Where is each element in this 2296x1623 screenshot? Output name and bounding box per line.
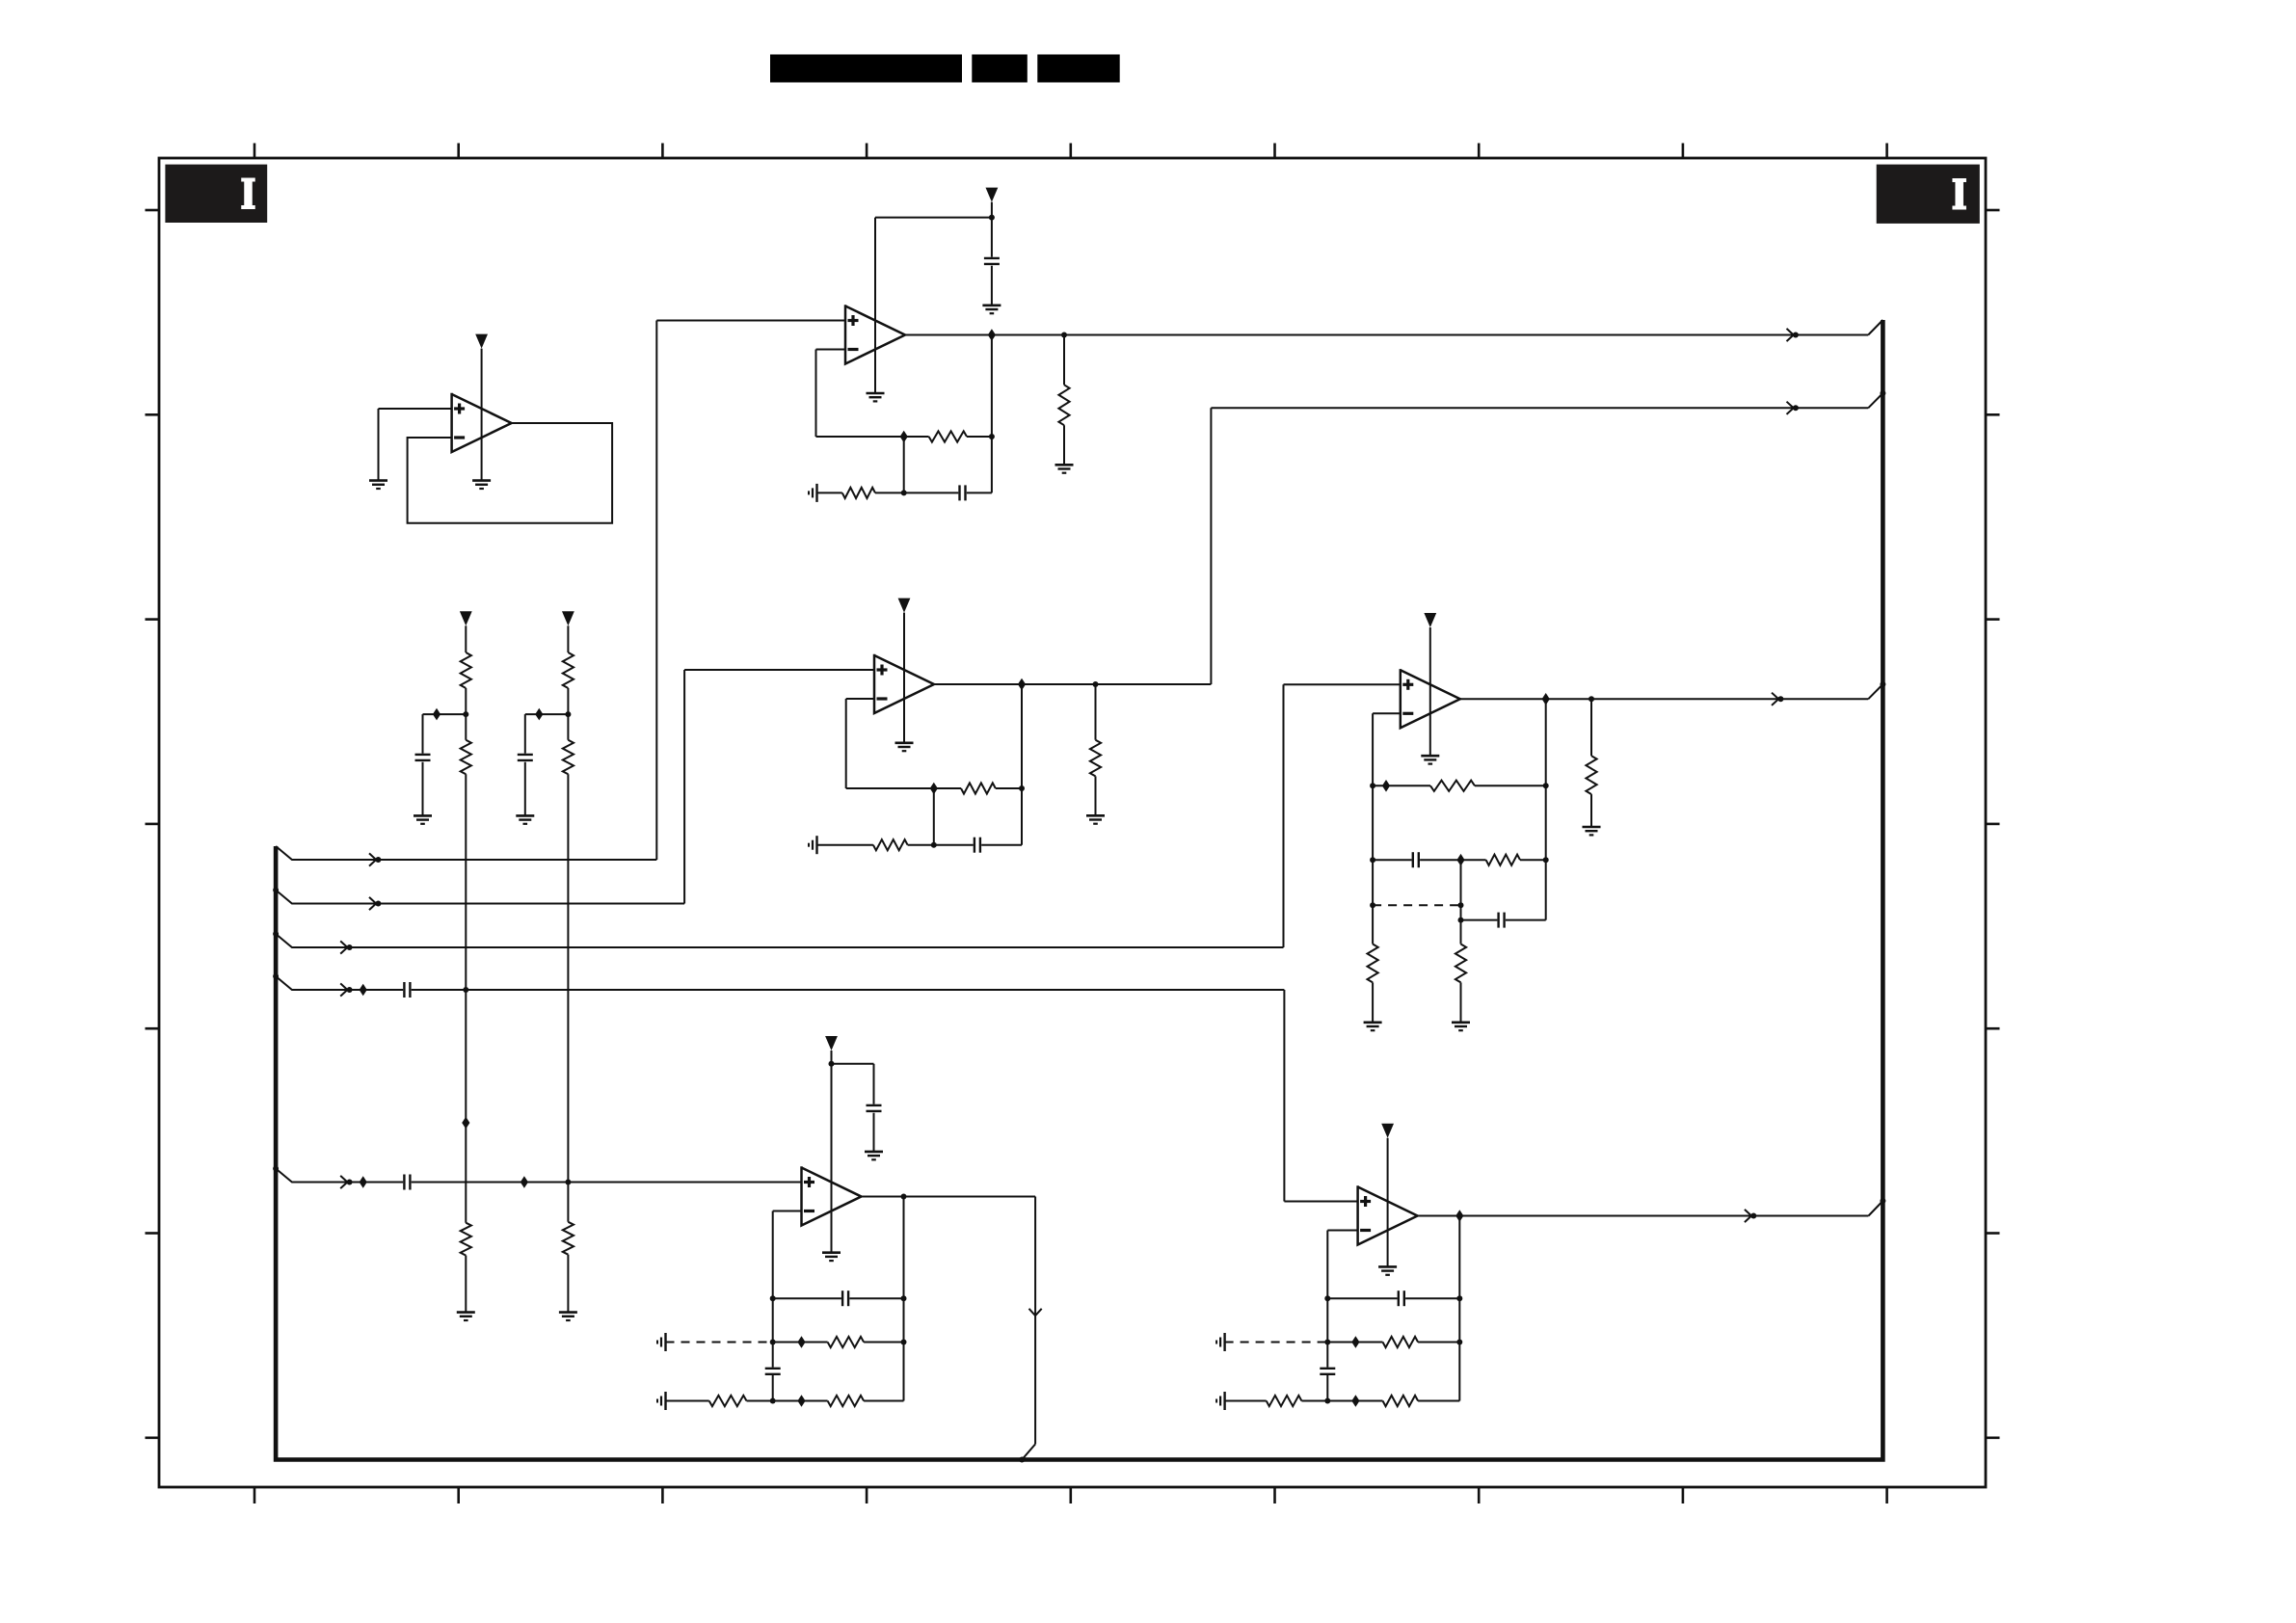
U2 output diamond junction [988,329,996,341]
op-amp U2 [845,305,905,363]
U6 - input wire and left column [1327,1230,1357,1232]
U2 lower node column [903,437,905,492]
U3 feedback column wire [1021,684,1023,845]
arrow on U6 output wire [1745,1210,1751,1222]
grid-reference letter I (right) [1952,178,1966,210]
divider 1 column diamond [462,1117,469,1130]
ground under U2 decoupling cap [982,304,1001,306]
wire branch 5 (bus via coupling cap to U5 + input) [276,1169,403,1183]
ground under U3 [895,741,914,744]
U5 power stem [831,1051,833,1064]
junction on right bus from U3 output [1880,390,1885,396]
ground under U6 [1378,1265,1397,1268]
divider 1 bottom resistor [461,1223,471,1256]
ground under U5 [822,1251,841,1254]
divider 1 mid node junction [463,711,468,717]
U3 output diamond junction [1018,678,1026,691]
U2 output load resistor [1063,335,1065,386]
grid-reference box top-left [165,165,267,223]
junction branch 5 / divider 2 column [565,1180,571,1185]
ground under U4 [1421,755,1439,758]
wire branch 3 (bus to U4 + input) [276,934,1283,947]
node dot branch 2 [375,901,381,907]
U2 power wire to op-amp [875,217,992,219]
ground under U1 [472,479,491,482]
node dot branch 3 [347,945,353,950]
arrow on U5 output drop wire [1029,1309,1042,1316]
node dot branch 1 [375,857,381,863]
ground at U1 + input [369,479,387,482]
junction on right bus from U4 output [1880,681,1885,687]
U6 output diamond junction [1455,1210,1463,1222]
ground under divider 2 [559,1311,577,1314]
wire branch 4 continued [412,989,1285,991]
U3 series capacitor [934,844,974,846]
U2 feedback column junction [989,434,995,439]
U5 row C resistor [773,1400,828,1402]
divider 2 cap branch wire [525,713,569,715]
power symbol for U5 [825,1036,838,1051]
ground under U4 mid column [1452,1022,1470,1024]
ground under divider 1 capacitor [414,814,432,817]
U5 row A capacitor [773,1297,841,1299]
divider 2 column wire [567,714,569,740]
U2 lower node junction [901,490,907,495]
arrow on U2 output wire [1787,329,1794,341]
U6 row C resistor [1327,1400,1382,1402]
U5 left column junction row B [770,1340,776,1345]
U5 supply decoupling branch [832,1063,874,1065]
U4 feedback column junction row B [1543,857,1549,863]
arrow on branch 4 [340,983,347,996]
U5 left column capacitor [765,1368,781,1370]
divider 2 upper resistor [567,625,569,652]
junction on bus for branch 4 [273,973,279,979]
U6 right column junction row B [1456,1340,1462,1345]
U5 output node dot [901,1194,907,1200]
U4 supply/ground pin wire [1429,627,1431,756]
U5 left column junction row A [770,1295,776,1301]
U3 series resistor to ground [817,844,873,846]
U4 row B resistor [1461,859,1486,861]
U2 output node dot [1061,333,1067,338]
U3 output wire [934,683,1211,685]
U4 row D capacitor [1461,919,1498,921]
U3 feedback resistor [934,787,961,789]
sideways ground at U5 row B [664,1333,666,1351]
U2 series capacitor [904,492,959,493]
U5 row C diamond junction [797,1395,805,1407]
arrow on U4 output wire [1772,693,1778,705]
sideways ground at U6 row B [1223,1333,1225,1351]
ground under divider 1 [457,1311,475,1314]
U5 supply/ground pin wire [831,1064,833,1253]
U5 output wire down to bottom bus [862,1196,1036,1198]
ground under U2 load resistor [1055,464,1074,466]
U4 output load resistor [1590,699,1592,756]
diamond on branch 5 [521,1176,528,1188]
U6 left column junction row B [1324,1340,1330,1345]
U4 mid column resistor to ground [1455,945,1466,983]
junction on bus for branch 2 [273,888,279,893]
U4 mid column wire [1460,860,1462,944]
node dot branch 4 [347,987,353,993]
U5 row B dashed wire [666,1342,773,1344]
ground under divider 2 capacitor [516,814,534,817]
junction on bus for branch 5 [273,1166,279,1172]
sideways ground at U6 row C [1223,1392,1225,1410]
U5 row B resistor [773,1342,828,1344]
U2 output wire to right bus [905,334,1868,336]
title bar (redacted) segment 1 [770,55,962,83]
thick bus (left vertical, bottom, right vertical) [276,320,1882,1460]
U4 output diamond junction [1542,693,1550,705]
U4 left column resistor to ground [1372,905,1374,944]
border frame [159,158,1986,1487]
dot on U6 output wire [1750,1213,1756,1219]
ground under U4 load resistor [1583,826,1601,829]
arrow on branch 2 [369,897,376,910]
U2 power stem [991,202,993,218]
U5 - input wire and left column [773,1211,802,1212]
power symbol for U6 [1381,1124,1394,1138]
U4 output wire to right bus [1460,698,1868,700]
divider 1 lower resistor [461,740,471,775]
arrow on U3 output wire [1787,402,1794,414]
dot on U3 output wire [1793,405,1799,411]
U3 supply/ground pin wire [903,613,905,743]
U3 feedback column junction [1019,785,1025,791]
op-amp U3 [874,654,934,713]
divider 2 diamond junction [535,708,543,721]
ground under U5 decoupling cap [865,1151,883,1154]
U6 supply/ground pin wire [1387,1138,1389,1267]
U4 left column junction row C [1370,902,1375,908]
U2 feedback resistor [904,436,929,438]
U4 feedback column wire [1545,699,1547,919]
U6 right column wire [1458,1216,1460,1401]
dot on U4 output wire [1777,696,1783,702]
U3 lower node junction [931,842,937,848]
diamond junction branch 5 [360,1176,367,1188]
divider 1 cap branch wire [423,713,467,715]
U5 power node junction [829,1061,835,1067]
U3 output load resistor [1095,684,1097,740]
U4 left column junction row A [1370,783,1375,788]
U4 feedback column junction row A [1543,783,1549,788]
power symbol for U1 [475,334,488,349]
U6 row B resistor [1327,1342,1382,1344]
U6 row A capacitor [1327,1297,1397,1299]
divider 2 mid node junction [565,711,571,717]
U2 feedback column wire [991,335,993,493]
arrow on branch 1 [369,853,376,865]
divider 2 bottom resistor [563,1222,574,1255]
U6 output wire to right bus [1418,1215,1869,1217]
divider 2 lower resistor [563,740,574,775]
sideways ground at U2 RC row [815,484,817,502]
U3 output node dot [1093,681,1099,687]
wire branch 5 continued [412,1182,802,1184]
sideways ground at U5 row C [664,1392,666,1410]
wire branch 4 (bus via coupling cap to U6 + input) [276,976,403,990]
U4 feedback resistor row A [1373,785,1430,786]
U4 row B diamond junction [1456,854,1464,866]
U6 row B diamond junction [1351,1336,1359,1348]
grid-reference box top-right [1877,165,1980,224]
U5 left column junction row C [770,1398,776,1404]
junction branch 4 / divider 1 column [463,987,468,993]
junction on bottom bus from U5 output [1019,1457,1025,1463]
U2 power node junction [989,215,995,221]
junction on right bus from U6 output [1880,1198,1885,1204]
U4 mid column junction row C [1458,902,1464,908]
divider 1 upper resistor [465,625,467,652]
divider 1 diamond junction [433,708,441,721]
U4 mid column junction row D [1458,918,1464,923]
U6 row B dashed wire [1225,1342,1328,1344]
title bar (redacted) segment 2 [972,55,1028,83]
op-amp U6 [1358,1185,1418,1244]
U1 + input wire [379,408,452,410]
U5 row C input resistor [666,1400,709,1402]
junction on bus for branch 3 [273,931,279,937]
op-amp U1 (voltage follower) [452,393,512,452]
U2 series resistor to ground [817,492,842,493]
coupling capacitor on branch 4 [403,982,405,998]
diamond junction branch 4 [360,984,367,997]
dot on U2 output wire [1793,333,1799,338]
power symbol for U3 [898,599,911,613]
U4 feedback resistor row A diamond [1382,780,1390,792]
power symbol for U2 [986,188,999,202]
U4 row B capacitor [1373,859,1412,861]
op-amp U4 [1401,669,1460,728]
divider 1 capacitor to ground [415,754,431,756]
U4 output node dot [1589,696,1594,702]
wire branch 2 (bus to U3 + input) [276,891,684,904]
node dot branch 5 [347,1180,353,1185]
U2 feedback diamond junction [900,431,908,443]
U5 right column junction row B [901,1340,907,1345]
divider 1 column wire [465,714,467,740]
U3 - input feedback wire [846,698,874,700]
grid-reference letter I (left) [241,178,255,210]
op-amp U5 [802,1166,862,1225]
ground under U3 load resistor [1086,814,1105,817]
U3 feedback diamond junction [930,783,938,795]
U5 right column junction row A [901,1295,907,1301]
coupling capacitor on branch 5 [403,1175,405,1190]
arrow on branch 3 [340,941,347,953]
divider 2 capacitor to ground [518,754,533,756]
title bar (redacted) segment 3 [1037,55,1119,83]
U1 supply/ground pin wire [481,349,483,481]
frame tick marks [254,144,256,159]
U5 right column wire [903,1197,905,1401]
U6 row C input resistor [1225,1400,1267,1402]
arrow on branch 5 [340,1176,347,1188]
U6 right column junction row A [1456,1295,1462,1301]
wire branch 1 (bus to U2 + input) [276,846,656,860]
U6 left column junction row A [1324,1295,1330,1301]
U6 left column junction row C [1324,1398,1330,1404]
U4 - input wire and left column [1373,712,1401,714]
sideways ground at U3 RC row [815,836,817,854]
power symbol divider 1 [460,611,472,625]
power symbol for U4 [1424,613,1436,627]
U1 feedback loop wire [408,423,612,523]
U4 left column junction row B [1370,857,1375,863]
U6 left column capacitor [1320,1368,1335,1370]
ground under U2 [867,392,885,395]
U2 - input feedback wire [816,349,846,351]
U5 row B diamond junction [797,1336,805,1348]
power symbol divider 2 [562,611,574,625]
U3 lower node column [933,788,935,845]
U6 row C diamond junction [1351,1395,1359,1407]
U2 supply decoupling capacitor [991,218,993,257]
ground under U4 left column [1364,1022,1382,1024]
U4 dashed link row C [1373,904,1460,906]
